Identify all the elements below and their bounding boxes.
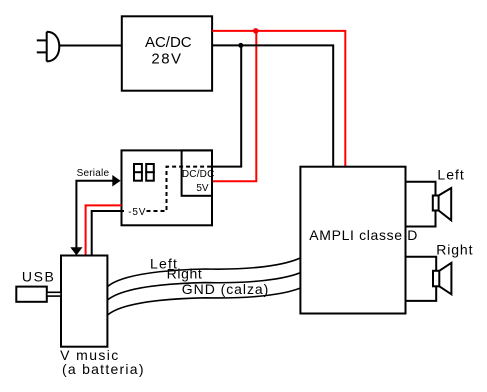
connector J1 (2x2 pins) xyxy=(133,164,155,181)
Seriale arrow wire xyxy=(76,181,113,248)
svg-text:USB: USB xyxy=(22,268,54,284)
speaker LS1 xyxy=(433,188,451,220)
svg-text:AMPLI classe D: AMPLI classe D xyxy=(309,227,417,243)
audio cable Right xyxy=(107,272,302,301)
dashed -5V net xyxy=(147,167,213,211)
speaker LS2 xyxy=(433,263,451,295)
svg-text:Seriale: Seriale xyxy=(77,168,110,179)
USB connector xyxy=(16,287,47,302)
svg-text:5V: 5V xyxy=(196,183,209,194)
svg-text:Right: Right xyxy=(436,241,472,257)
left speaker wires xyxy=(406,182,436,227)
svg-text:AC/DC: AC/DC xyxy=(145,34,192,51)
arrowhead into controller xyxy=(112,175,120,187)
black junction dot xyxy=(238,43,243,48)
USB plug shaft xyxy=(47,292,61,296)
red 5V wire to V music xyxy=(86,205,122,255)
wire plug to AC/DC xyxy=(59,45,122,47)
red +28V wire AC/DC to AMPLI xyxy=(212,31,345,167)
black GND wire AC/DC to AMPLI xyxy=(212,45,333,166)
svg-text:Right: Right xyxy=(167,265,202,281)
svg-text:-5V: -5V xyxy=(128,207,146,218)
audio cable GND xyxy=(107,287,302,315)
svg-text:Left: Left xyxy=(437,167,464,183)
audio cable Left xyxy=(107,257,302,287)
svg-text:(a batteria): (a batteria) xyxy=(62,361,144,377)
svg-text:DC/DC: DC/DC xyxy=(182,169,214,180)
AC mains plug P1 xyxy=(37,32,60,62)
red branch wire to DC/DC xyxy=(212,31,256,181)
black wire -5V to V music xyxy=(92,211,124,256)
controller box U1 xyxy=(122,150,213,225)
svg-text:28V: 28V xyxy=(151,51,181,68)
AMPLI classe D box xyxy=(300,167,405,314)
AC/DC converter box xyxy=(122,16,212,90)
V music player box xyxy=(61,256,107,347)
svg-text:GND (calza): GND (calza) xyxy=(182,281,268,297)
red junction dot xyxy=(253,28,259,34)
right speaker wires xyxy=(406,257,437,301)
DC/DC 5V sub-box xyxy=(182,150,212,195)
arrowhead into V music xyxy=(70,247,82,255)
black branch wire to DC/DC xyxy=(212,45,241,166)
